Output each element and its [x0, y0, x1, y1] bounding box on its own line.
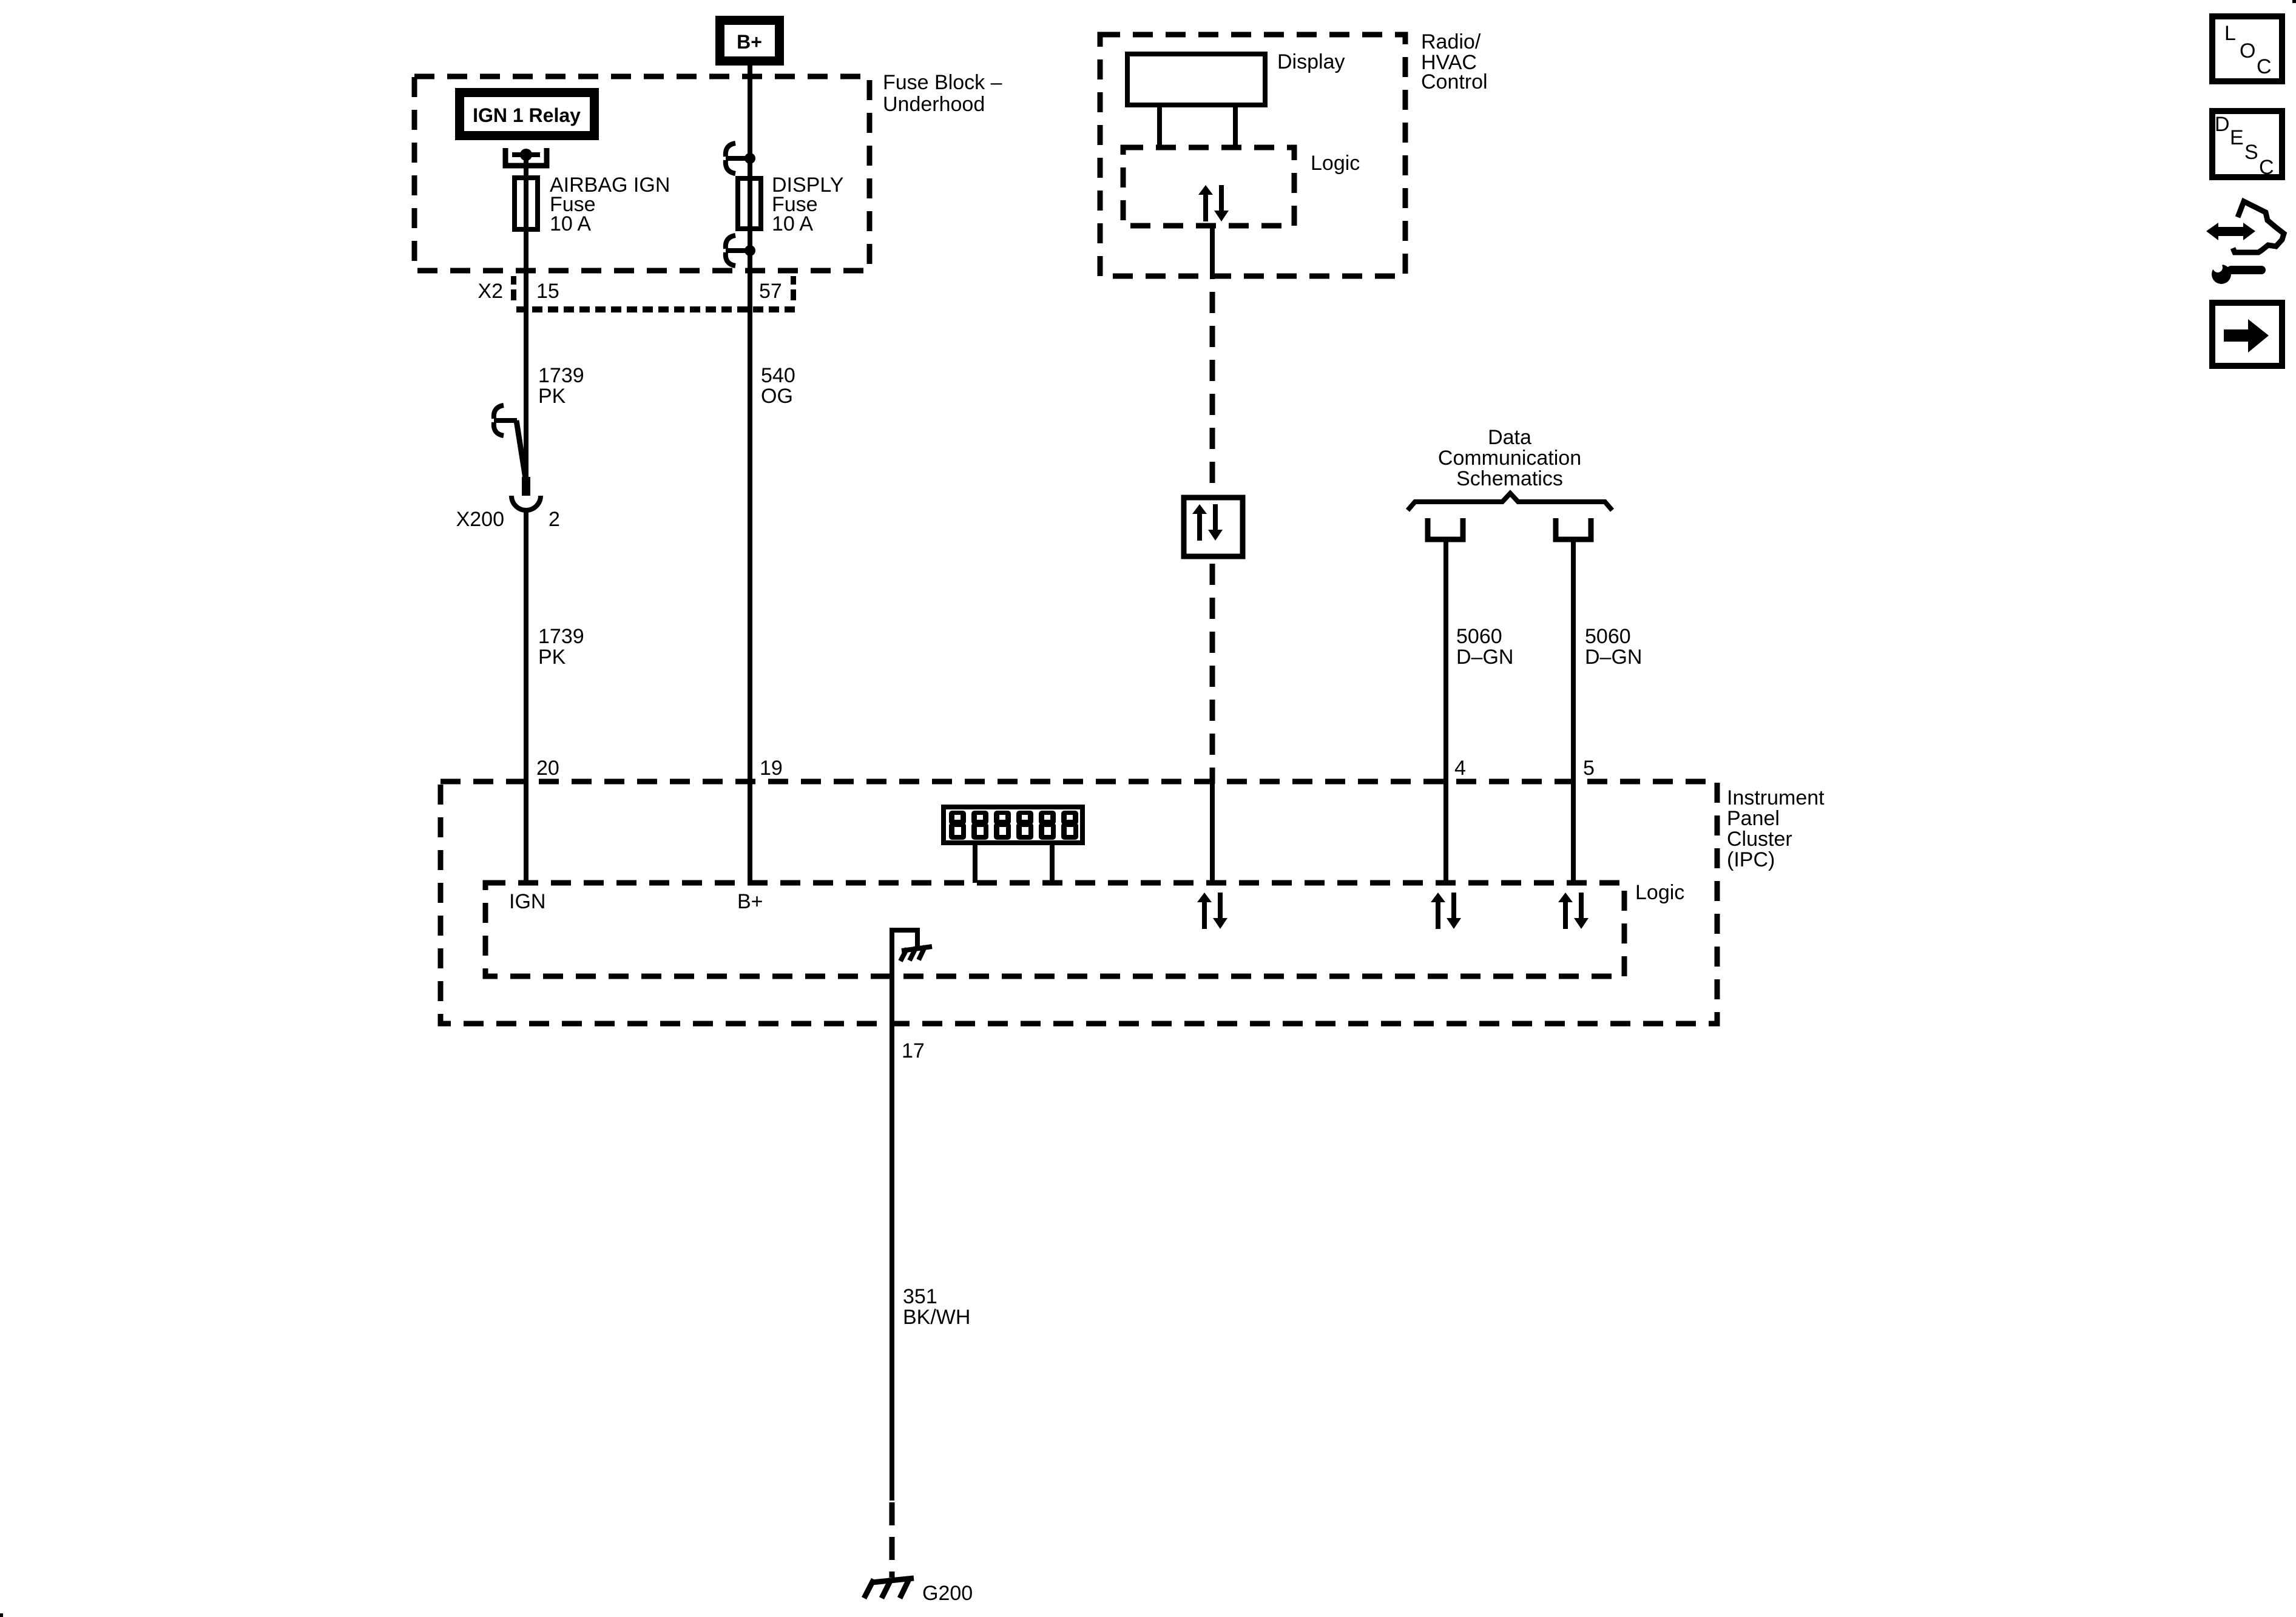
svg-text:Instrument: Instrument — [1727, 786, 1825, 809]
svg-text:5: 5 — [1583, 757, 1595, 780]
svg-text:D–GN: D–GN — [1585, 646, 1642, 669]
svg-text:O: O — [2240, 39, 2255, 62]
svg-text:2: 2 — [549, 508, 560, 531]
svg-text:PK: PK — [538, 646, 566, 669]
svg-text:Logic: Logic — [1635, 881, 1684, 904]
svg-text:BK/WH: BK/WH — [903, 1306, 970, 1329]
svg-text:X200: X200 — [456, 508, 504, 531]
svg-text:Schematics: Schematics — [1456, 467, 1563, 490]
svg-text:10 A: 10 A — [550, 212, 591, 235]
svg-text:E: E — [2230, 126, 2244, 149]
svg-text:B+: B+ — [737, 31, 762, 53]
svg-text:(IPC): (IPC) — [1727, 848, 1775, 871]
svg-text:540: 540 — [761, 364, 795, 387]
svg-text:Communication: Communication — [1438, 447, 1581, 470]
svg-text:C: C — [2259, 156, 2274, 179]
svg-text:X2: X2 — [478, 280, 503, 303]
svg-text:Radio/: Radio/ — [1421, 30, 1481, 53]
svg-text:Logic: Logic — [1311, 152, 1360, 175]
svg-text:Cluster: Cluster — [1727, 828, 1792, 851]
svg-text:5060: 5060 — [1585, 625, 1631, 648]
svg-text:PK: PK — [538, 385, 566, 408]
svg-text:Underhood: Underhood — [883, 93, 985, 116]
svg-text:IGN: IGN — [509, 890, 545, 913]
svg-text:OG: OG — [761, 385, 793, 408]
svg-text:1739: 1739 — [538, 364, 584, 387]
svg-text:351: 351 — [903, 1285, 937, 1308]
svg-text:Fuse Block –: Fuse Block – — [883, 71, 1002, 94]
svg-text:L: L — [2224, 22, 2236, 45]
svg-text:C: C — [2257, 55, 2272, 78]
svg-text:Panel: Panel — [1727, 807, 1780, 830]
svg-text:S: S — [2244, 141, 2258, 164]
svg-text:D: D — [2215, 113, 2230, 136]
svg-text:1739: 1739 — [538, 625, 584, 648]
svg-text:19: 19 — [760, 757, 783, 780]
svg-text:5060: 5060 — [1456, 625, 1502, 648]
svg-text:Display: Display — [1277, 50, 1345, 73]
svg-text:17: 17 — [902, 1039, 925, 1062]
svg-text:IGN 1 Relay: IGN 1 Relay — [473, 104, 581, 126]
svg-text:10 A: 10 A — [772, 212, 813, 235]
svg-text:Control: Control — [1421, 70, 1488, 93]
svg-text:B+: B+ — [737, 890, 763, 913]
svg-text:4: 4 — [1454, 757, 1466, 780]
svg-text:15: 15 — [536, 280, 559, 303]
svg-text:Data: Data — [1488, 426, 1531, 449]
svg-text:G200: G200 — [922, 1582, 973, 1605]
svg-text:20: 20 — [536, 757, 559, 780]
svg-text:57: 57 — [759, 280, 782, 303]
svg-text:D–GN: D–GN — [1456, 646, 1513, 669]
